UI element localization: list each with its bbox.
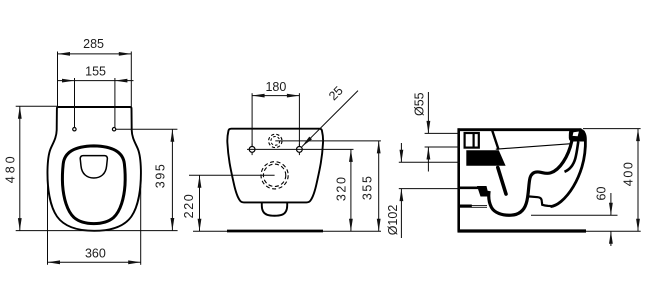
svg-text:220: 220 xyxy=(182,193,196,219)
svg-text:155: 155 xyxy=(85,65,106,79)
svg-text:Ø102: Ø102 xyxy=(386,205,400,236)
svg-text:480: 480 xyxy=(3,153,17,183)
svg-text:355: 355 xyxy=(361,174,375,200)
svg-text:180: 180 xyxy=(265,80,286,94)
svg-text:285: 285 xyxy=(83,37,104,51)
svg-text:395: 395 xyxy=(154,163,168,189)
svg-text:60: 60 xyxy=(595,187,609,201)
svg-text:Ø55: Ø55 xyxy=(413,92,427,116)
svg-text:320: 320 xyxy=(335,175,349,201)
svg-text:400: 400 xyxy=(622,161,636,187)
svg-text:360: 360 xyxy=(85,246,106,260)
